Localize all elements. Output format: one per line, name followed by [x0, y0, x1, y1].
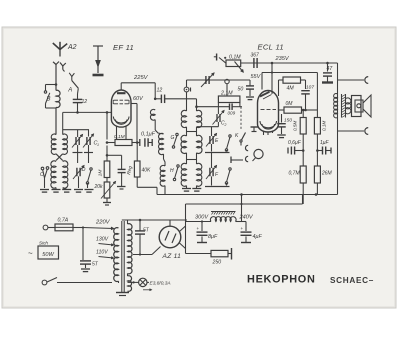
svg-text:G: G: [171, 135, 175, 141]
svg-text:A: A: [67, 88, 72, 94]
svg-text:8μF: 8μF: [208, 234, 218, 240]
svg-text:55V: 55V: [251, 74, 262, 80]
svg-text:C: C: [40, 172, 44, 178]
svg-text:240V: 240V: [239, 215, 254, 221]
svg-text:50: 50: [238, 87, 244, 93]
svg-text:SCHAEC–: SCHAEC–: [330, 276, 374, 285]
svg-text:5T: 5T: [143, 228, 150, 234]
svg-text:20k: 20k: [94, 184, 104, 190]
svg-text:12: 12: [157, 88, 163, 94]
svg-text:H: H: [170, 168, 174, 174]
svg-text:~: ~: [28, 249, 33, 258]
svg-text:HEKOPHON: HEKOPHON: [247, 274, 316, 286]
svg-text:40K: 40K: [142, 168, 152, 174]
svg-text:A2: A2: [67, 44, 77, 51]
svg-text:0,7A: 0,7A: [58, 218, 69, 224]
svg-text:12: 12: [82, 99, 88, 105]
svg-text:130V: 130V: [96, 237, 109, 243]
svg-text:110V: 110V: [96, 250, 108, 256]
svg-text:ECL 11: ECL 11: [258, 43, 284, 52]
svg-text:AZ 11: AZ 11: [162, 253, 182, 260]
svg-text:0,6μF: 0,6μF: [288, 140, 302, 146]
svg-text:2: 2: [224, 123, 227, 127]
svg-text:60V: 60V: [133, 96, 144, 102]
svg-text:250: 250: [212, 260, 222, 266]
svg-text:0M: 0M: [286, 101, 294, 107]
svg-text:+: +: [241, 226, 244, 231]
svg-text:0,5M: 0,5M: [293, 121, 298, 131]
svg-text:Sich: Sich: [39, 241, 48, 246]
svg-text:B: B: [47, 97, 51, 103]
svg-text:220V: 220V: [95, 220, 111, 226]
svg-text:E3,8/0,3A: E3,8/0,3A: [150, 281, 171, 287]
svg-text:150: 150: [284, 118, 292, 124]
svg-text:EF 11: EF 11: [113, 43, 134, 52]
svg-text:107: 107: [306, 85, 314, 91]
svg-text:4μF: 4μF: [253, 234, 263, 240]
svg-text:235V: 235V: [275, 56, 290, 62]
svg-text:0,1μF: 0,1μF: [141, 132, 156, 138]
svg-text:1: 1: [97, 143, 99, 147]
svg-text:50W: 50W: [42, 252, 54, 258]
svg-text:1μF: 1μF: [320, 140, 330, 146]
svg-text:0,1M: 0,1M: [322, 121, 327, 131]
svg-text:225V: 225V: [133, 75, 149, 81]
svg-text:009: 009: [228, 111, 236, 116]
svg-text:367: 367: [251, 52, 260, 58]
svg-text:26M: 26M: [321, 171, 333, 177]
svg-text:1M: 1M: [98, 170, 104, 177]
svg-text:300V: 300V: [195, 215, 209, 221]
svg-text:+: +: [197, 226, 200, 231]
svg-text:D: D: [82, 167, 86, 173]
svg-text:4M: 4M: [287, 86, 295, 92]
svg-text:0,7M: 0,7M: [289, 171, 301, 177]
svg-text:5T: 5T: [92, 262, 99, 268]
